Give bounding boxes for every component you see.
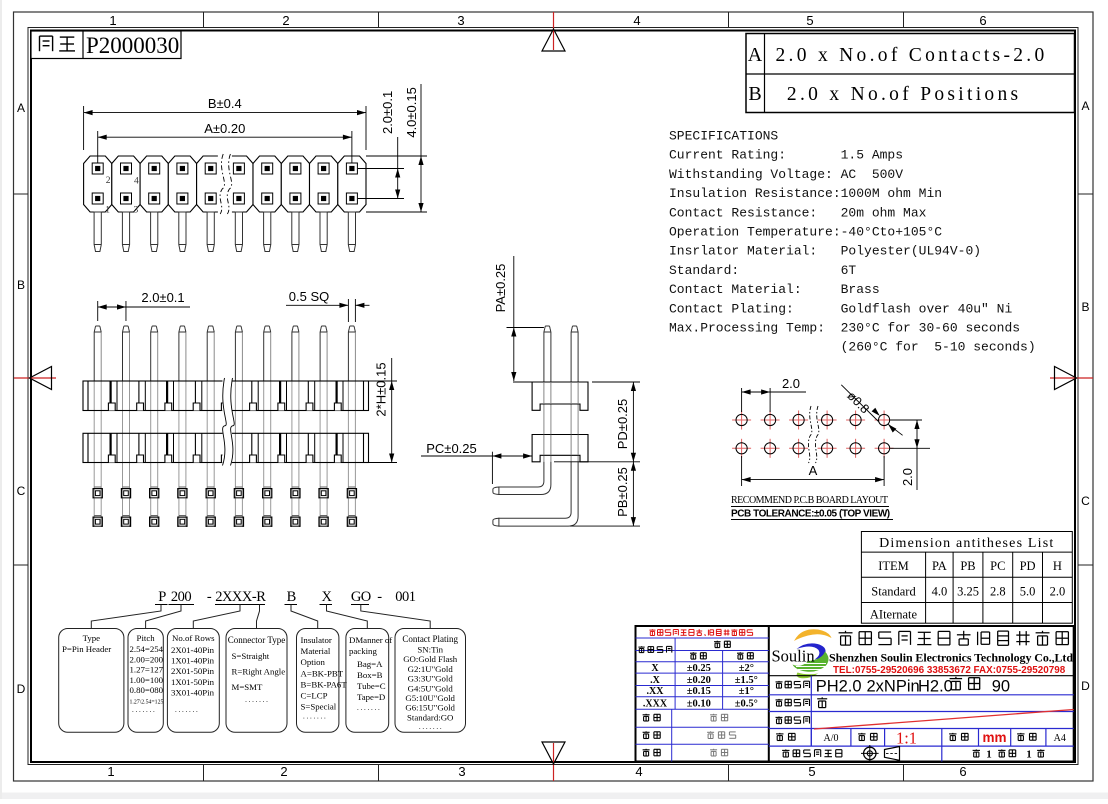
top view contact pads	[92, 163, 357, 204]
svg-text:Tube=C: Tube=C	[357, 681, 386, 691]
svg-text:PH2.0: PH2.0	[816, 678, 862, 696]
svg-text:S=Straight: S=Straight	[232, 651, 270, 661]
svg-text:No.of Rows: No.of Rows	[172, 633, 215, 643]
svg-text:001: 001	[395, 589, 416, 605]
pcb layout holes	[732, 411, 894, 458]
svg-text:-: -	[207, 589, 212, 605]
svg-text:P: P	[158, 589, 166, 605]
side view insulator band lower	[532, 435, 588, 462]
svg-text:Contact Material: Brass: Contact Material: Brass	[669, 282, 880, 297]
svg-text:Insrlator Material: Polyeste: Insrlator Material: Polyester(UL94V-0)	[669, 244, 981, 259]
svg-text:B=BK-PA6T: B=BK-PA6T	[301, 680, 348, 690]
svg-text:5.0: 5.0	[1020, 585, 1036, 599]
svg-text:1: 1	[986, 749, 992, 761]
svg-text:Max.Processing Temp: 230°C fo: Max.Processing Temp: 230°C for 30-60 sec…	[669, 321, 1020, 336]
svg-text:1:1: 1:1	[896, 729, 917, 748]
svg-text:packing: packing	[349, 646, 377, 656]
svg-text:SPECIFICATIONS: SPECIFICATIONS	[669, 129, 778, 144]
projection symbol	[861, 745, 900, 762]
row file location	[776, 716, 810, 723]
svg-text:RECOMMEND P.C.B BOARD LAYOUT: RECOMMEND P.C.B BOARD LAYOUT	[731, 495, 888, 506]
svg-text:Tape=D: Tape=D	[357, 692, 385, 702]
specifications text block	[669, 129, 1036, 355]
svg-text:G2:1U"Gold: G2:1U"Gold	[408, 664, 454, 674]
svg-text:ITEM: ITEM	[878, 559, 909, 573]
svg-text:PA±0.25: PA±0.25	[493, 264, 508, 313]
designer rows	[643, 714, 661, 721]
svg-text:Type: Type	[83, 633, 101, 643]
front view break lines	[223, 380, 233, 465]
drawing number box	[31, 31, 181, 59]
svg-text:2.0±0.1: 2.0±0.1	[141, 290, 184, 305]
svg-text:GO:Gold Flash: GO:Gold Flash	[403, 654, 458, 664]
svg-text:Contact Resistance: 20m ohm: Contact Resistance: 20m ohm Max	[669, 205, 927, 220]
svg-text:PB: PB	[960, 559, 975, 573]
A/B formula table	[746, 34, 1075, 113]
svg-text:. . . . . . .: . . . . . . .	[357, 704, 380, 712]
tolerance table grid	[636, 638, 769, 762]
ordering leader lines	[91, 605, 430, 629]
svg-text:5: 5	[808, 764, 815, 779]
dimension B±0.4	[83, 106, 85, 150]
svg-text:2.0: 2.0	[900, 468, 915, 486]
centering mark top	[553, 12, 555, 50]
svg-text:. . . . . . .: . . . . . . .	[132, 706, 155, 714]
svg-text:±0.10: ±0.10	[687, 699, 711, 710]
svg-text:Box=B: Box=B	[357, 670, 383, 680]
svg-text:SN:Tin: SN:Tin	[417, 645, 443, 655]
svg-text:DManner of: DManner of	[349, 635, 392, 645]
svg-text:A±0.20: A±0.20	[204, 121, 245, 136]
svg-text:M=SMT: M=SMT	[232, 682, 263, 692]
svg-text:1: 1	[107, 764, 114, 779]
svg-text:Option: Option	[301, 657, 326, 667]
svg-text:3.25: 3.25	[957, 585, 979, 599]
dimension A±0.20	[97, 131, 99, 163]
svg-text:4: 4	[635, 764, 642, 779]
svg-text:2: 2	[280, 764, 287, 779]
svg-text:P2000030: P2000030	[86, 33, 179, 58]
svg-text:2*H±0.15: 2*H±0.15	[374, 362, 389, 416]
svg-text:1: 1	[1026, 749, 1032, 761]
svg-text:B: B	[748, 83, 761, 105]
pcb dimension 2.0 top	[741, 388, 743, 412]
svg-text:±2°: ±2°	[739, 663, 754, 674]
svg-text:PD: PD	[1020, 559, 1036, 573]
svg-text:2X01-40Pin: 2X01-40Pin	[171, 645, 215, 655]
tolerance table red note	[649, 629, 752, 636]
dimension PC±0.25	[421, 455, 532, 457]
svg-text:90: 90	[992, 678, 1010, 696]
svg-text:PC±0.25: PC±0.25	[426, 441, 477, 456]
svg-text:1.27\2.54=125: 1.27\2.54=125	[130, 700, 164, 706]
front view insulator band upper	[83, 381, 369, 411]
centering mark bottom	[553, 743, 555, 781]
svg-text:GO: GO	[351, 589, 371, 605]
svg-text:1: 1	[105, 206, 110, 216]
svg-text:2xNPin: 2xNPin	[867, 678, 920, 696]
pcb layout break lines	[808, 406, 811, 463]
tolerance table labels	[638, 646, 671, 652]
svg-text:2: 2	[282, 13, 289, 28]
title block grid	[769, 676, 1074, 746]
svg-text:4.0±0.15: 4.0±0.15	[404, 87, 419, 138]
svg-text:(260°C for 5-10 seconds): (260°C for 5-10 seconds)	[669, 340, 1036, 355]
svg-text:±0.25: ±0.25	[687, 663, 711, 674]
svg-text:1X01-40Pin: 1X01-40Pin	[171, 656, 215, 666]
svg-text:0.80=080: 0.80=080	[130, 685, 164, 695]
svg-text:mm: mm	[982, 730, 1006, 745]
svg-text:.XX: .XX	[647, 686, 665, 697]
svg-text:4.0: 4.0	[932, 585, 948, 599]
top view pins below body	[94, 212, 355, 252]
svg-text:PC: PC	[990, 559, 1005, 573]
side view bent leg lower pin	[498, 462, 578, 526]
svg-text:R=Right Angle: R=Right Angle	[232, 667, 286, 677]
svg-text:C: C	[17, 484, 26, 498]
svg-text:D: D	[17, 682, 26, 696]
bottom row projection	[941, 746, 943, 761]
svg-text:PA: PA	[932, 559, 947, 573]
dimension 0.5 SQ front view	[347, 299, 349, 322]
dimension PA±0.25	[507, 327, 544, 329]
svg-text:.XXX: .XXX	[643, 699, 668, 710]
svg-text:B±0.4: B±0.4	[208, 96, 242, 111]
svg-text:Shenzhen Soulin Electronics Te: Shenzhen Soulin Electronics Technology C…	[829, 651, 1073, 665]
svg-text:2.0±0.1: 2.0±0.1	[380, 91, 395, 134]
svg-text:5: 5	[806, 13, 813, 28]
svg-text:Connector Type: Connector Type	[228, 635, 285, 645]
svg-text:±0.20: ±0.20	[687, 675, 711, 686]
dimension 2*H±0.15 front view	[369, 380, 398, 382]
svg-text:2XXX-R: 2XXX-R	[215, 589, 266, 605]
svg-text:C=LCP: C=LCP	[301, 691, 328, 701]
centering mark right	[1050, 377, 1093, 379]
svg-text:Current Rating: 1.5 Amps: Current Rating: 1.5 Amps	[669, 148, 903, 163]
title block outer border	[636, 626, 1074, 762]
svg-text:G5:10U"Gold: G5:10U"Gold	[405, 693, 455, 703]
svg-text:A: A	[809, 463, 818, 478]
svg-text:2.00=200: 2.00=200	[130, 654, 164, 664]
svg-text:. . . . . . .: . . . . . . .	[419, 723, 442, 731]
svg-text:Operation Temperature:-40°Cto+: Operation Temperature:-40°Cto+105°C	[669, 225, 942, 240]
svg-text:4: 4	[633, 13, 640, 28]
svg-text:A: A	[1081, 99, 1089, 113]
svg-text:B: B	[17, 278, 25, 292]
svg-text:Pitch: Pitch	[137, 633, 156, 643]
front view pins	[94, 326, 355, 527]
svg-text:3: 3	[457, 13, 464, 28]
svg-text:G4:5U"Gold: G4:5U"Gold	[408, 683, 454, 693]
svg-text:1X01-50Pin: 1X01-50Pin	[171, 677, 215, 687]
svg-text:Material: Material	[301, 646, 331, 656]
svg-text:Standard: Standard	[871, 585, 916, 599]
soulin logo	[793, 629, 832, 678]
svg-text:6: 6	[959, 764, 966, 779]
svg-text:X: X	[322, 589, 333, 605]
svg-text:A: A	[17, 101, 25, 115]
pcb dimension A bottom	[741, 456, 743, 486]
svg-text:H: H	[1053, 559, 1062, 573]
svg-text:P=Pin Header: P=Pin Header	[62, 644, 111, 654]
svg-text:3: 3	[134, 206, 139, 216]
front view pin tails with crimp beads	[93, 487, 356, 527]
svg-text:±1°: ±1°	[739, 686, 754, 697]
dimension PD±0.25	[592, 381, 640, 383]
svg-text:. . . . . . .: . . . . . . .	[303, 713, 326, 721]
svg-text:Contact Plating: Goldflas: Contact Plating: Goldflash over 40u" Ni	[669, 301, 1012, 316]
row product code	[776, 699, 810, 706]
side view insulator band upper	[532, 382, 588, 410]
svg-text:G6:15U"Gold: G6:15U"Gold	[405, 703, 455, 713]
svg-text:-: -	[377, 589, 382, 605]
svg-text:1: 1	[109, 13, 116, 28]
svg-text:A: A	[748, 44, 763, 66]
pcb dimension 2.0 right	[890, 419, 922, 421]
side view pins through bands	[544, 382, 578, 455]
row product model	[776, 681, 810, 688]
svg-text:S=Special: S=Special	[301, 702, 337, 712]
svg-text:2.0 x No.of Contacts-2.0: 2.0 x No.of Contacts-2.0	[776, 45, 1048, 66]
svg-text:2.0: 2.0	[782, 376, 800, 391]
svg-text:Dimension antitheses List: Dimension antitheses List	[879, 536, 1054, 551]
svg-text:4: 4	[134, 177, 139, 187]
svg-text:2.0 x No.of Positions: 2.0 x No.of Positions	[787, 84, 1022, 105]
svg-text:3: 3	[458, 764, 465, 779]
svg-text:Soulin: Soulin	[772, 647, 815, 666]
ordering code underlines	[155, 604, 168, 606]
svg-text:6: 6	[979, 13, 986, 28]
ordering option boxes	[59, 629, 124, 733]
svg-text:B: B	[287, 589, 296, 605]
svg-text:. . . . . . .: . . . . . . .	[175, 706, 198, 714]
side view pins vertical	[544, 326, 578, 462]
svg-text:3X01-40Pin: 3X01-40Pin	[171, 687, 215, 697]
svg-text:A/0: A/0	[824, 733, 839, 744]
svg-text:AIternate: AIternate	[870, 608, 918, 622]
svg-text:A4: A4	[1054, 733, 1066, 744]
svg-text:2.8: 2.8	[990, 585, 1006, 599]
svg-text:±0.15: ±0.15	[687, 686, 711, 697]
svg-text:±1.5°: ±1.5°	[735, 675, 758, 686]
svg-text:D: D	[1081, 679, 1090, 693]
svg-text:X: X	[651, 663, 659, 674]
svg-text:. . . . . . .: . . . . . . .	[245, 696, 268, 704]
dimension 2.0±0.1 vertical top view	[358, 168, 404, 170]
top view break lines	[218, 155, 232, 213]
svg-text:2: 2	[106, 176, 111, 186]
svg-text:2X01-50Pin: 2X01-50Pin	[171, 666, 215, 676]
svg-text:PB±0.25: PB±0.25	[615, 467, 630, 517]
svg-text:1.27=127: 1.27=127	[130, 665, 164, 675]
dimension antitheses table	[861, 532, 1072, 624]
svg-text:Contact Plating: Contact Plating	[402, 634, 458, 644]
pcb dimension diameter 0.8	[841, 385, 878, 422]
svg-text:2.54=254: 2.54=254	[130, 644, 164, 654]
svg-text:PCB TOLERANCE:±0.05 (TOP VIEW): PCB TOLERANCE:±0.05 (TOP VIEW)	[731, 509, 890, 520]
side view bent leg upper pin	[498, 462, 551, 495]
company name chinese	[839, 631, 1069, 646]
svg-text:Standard: 6T: Standard: 6T	[669, 263, 856, 278]
dimension 4.0±0.15 vertical top view	[366, 155, 427, 157]
svg-text:±0.5°: ±0.5°	[735, 699, 758, 710]
svg-text:0.5 SQ: 0.5 SQ	[289, 289, 329, 304]
row version scale unit	[811, 729, 1046, 747]
svg-text:TEL:0755-29520696 33853672: TEL:0755-29520696 33853672 FAX:0755-2952…	[833, 665, 1066, 676]
svg-text:B: B	[1081, 300, 1089, 314]
dimension PB±0.25	[570, 525, 640, 527]
top view octagon body row	[84, 156, 366, 212]
svg-text:H2.0: H2.0	[918, 678, 953, 696]
svg-text:.X: .X	[650, 675, 661, 686]
svg-text:2.0: 2.0	[1050, 585, 1066, 599]
svg-text:1.00=100: 1.00=100	[130, 675, 164, 685]
svg-text:200: 200	[171, 589, 192, 605]
svg-text:A=BK-PBT: A=BK-PBT	[301, 669, 344, 679]
svg-text:Withstanding Voltage: AC 500V: Withstanding Voltage: AC 500V	[669, 167, 903, 182]
svg-text:Bag=A: Bag=A	[357, 659, 383, 669]
svg-text:Standard:GO: Standard:GO	[407, 712, 453, 722]
svg-text:PD±0.25: PD±0.25	[615, 399, 630, 450]
svg-text:C: C	[1081, 494, 1090, 508]
front view insulator band lower	[83, 433, 369, 462]
centering mark left	[14, 377, 56, 379]
svg-text:G3:3U"Gold: G3:3U"Gold	[408, 674, 454, 684]
svg-text:Insulation Resistance:1000M oh: Insulation Resistance:1000M ohm Min	[669, 186, 942, 201]
svg-text:Insulator: Insulator	[301, 635, 332, 645]
dimension 2.0±0.1 front view	[97, 301, 99, 321]
